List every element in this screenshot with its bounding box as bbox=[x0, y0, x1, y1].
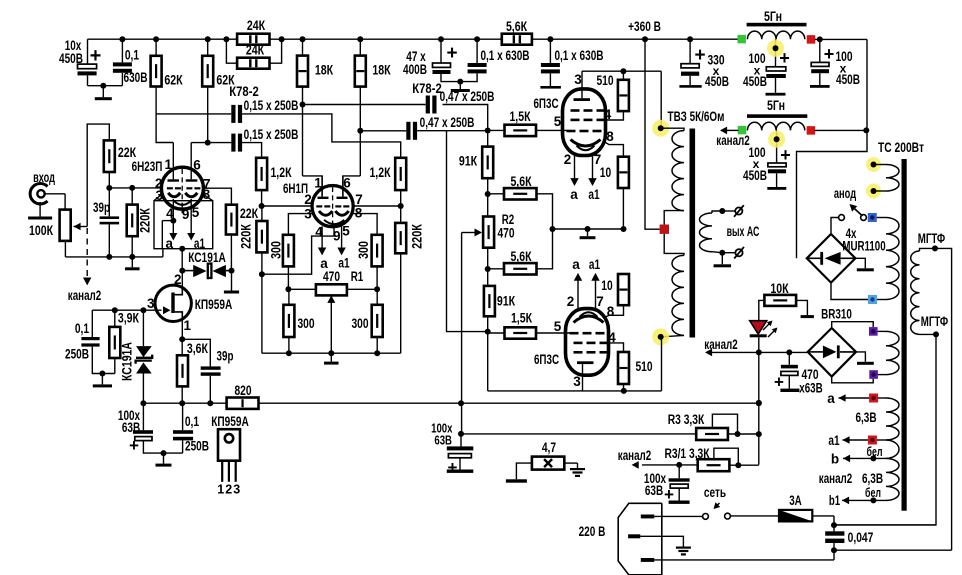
wire 6N1P cathode2 bbox=[352, 214, 377, 235]
svg-text:MUR1100: MUR1100 bbox=[842, 239, 885, 254]
terminal purple1 bbox=[869, 327, 878, 336]
svg-text:a1: a1 bbox=[338, 256, 350, 271]
svg-text:2: 2 bbox=[564, 152, 572, 167]
tube1 pin4 screen link bbox=[603, 111, 624, 120]
tube 6N23P cathode box bbox=[154, 201, 213, 249]
svg-text:1,5К: 1,5К bbox=[509, 109, 531, 124]
svg-text:+360 В: +360 В bbox=[628, 19, 661, 34]
wire MGTF top to fuse line bbox=[935, 248, 952, 550]
tube1 grid rows bbox=[571, 109, 580, 112]
svg-text:0,1: 0,1 bbox=[75, 321, 90, 336]
svg-text:5Гн: 5Гн bbox=[764, 9, 782, 24]
winding a1-b bbox=[886, 440, 899, 458]
resistor 22K grid1 bbox=[104, 140, 115, 172]
winding TVZ primary upper bbox=[661, 128, 684, 130]
svg-text:0,1: 0,1 bbox=[125, 48, 140, 63]
wire 6N1P grid2 bbox=[353, 205, 401, 207]
capacitor 47x400V electrolytic bbox=[440, 39, 442, 63]
resistor 1,5K upper bbox=[505, 125, 537, 136]
prong earth bbox=[628, 534, 640, 538]
resistor 1,2K right bbox=[395, 158, 406, 190]
wire feedback riser bbox=[447, 131, 488, 332]
svg-text:6: 6 bbox=[343, 176, 351, 191]
wire BR310 top to purple1 bbox=[832, 322, 874, 328]
wire fuse to cap bbox=[833, 516, 835, 531]
tube 6N23P grids bbox=[167, 187, 173, 189]
svg-text:BR310: BR310 bbox=[821, 307, 852, 322]
transformer TVZ core bbox=[690, 129, 696, 338]
wire anode1 to TVZ bbox=[660, 71, 662, 128]
svg-text:24К: 24К bbox=[246, 43, 265, 58]
node yellow choke1 tap bbox=[767, 40, 784, 57]
LED indicator bbox=[750, 321, 767, 334]
svg-text:+: + bbox=[694, 45, 705, 66]
resistor 5,6K upper bbox=[504, 188, 537, 199]
tube1 heater leads bbox=[574, 156, 576, 179]
svg-text:a1: a1 bbox=[588, 187, 600, 202]
tube1 cathode arc bbox=[571, 140, 601, 147]
svg-text:3: 3 bbox=[573, 374, 581, 389]
svg-text:0,15 х 250В: 0,15 х 250В bbox=[244, 98, 299, 113]
svg-text:5: 5 bbox=[192, 205, 200, 220]
wire heater dc bus channel2 bbox=[712, 351, 808, 353]
dashed channel2 from wiper bbox=[86, 228, 88, 278]
svg-text:5: 5 bbox=[554, 114, 562, 129]
tube 6P3S upper envelope bbox=[563, 89, 606, 156]
capacitor 0,15x250V upper bbox=[156, 113, 231, 115]
wiper R1 bbox=[327, 295, 335, 303]
resistor 62K first bbox=[155, 39, 157, 56]
svg-text:+: + bbox=[779, 48, 790, 68]
svg-text:450В: 450В bbox=[59, 51, 83, 66]
svg-text:+: + bbox=[90, 45, 102, 67]
tube2 heater leads bbox=[577, 281, 579, 309]
tube1 heater arc bbox=[577, 146, 595, 151]
svg-text:5,6К: 5,6К bbox=[510, 174, 532, 189]
svg-text:250В: 250В bbox=[65, 347, 89, 362]
svg-text:3А: 3А bbox=[789, 493, 802, 508]
resistor 18K second bbox=[359, 39, 361, 55]
terminal red choke1 bbox=[807, 35, 816, 44]
capacitor 39p input bbox=[108, 188, 110, 217]
resistor 300 lower right bbox=[372, 305, 383, 337]
capacitor 0,47x250V lower bbox=[360, 130, 406, 132]
svg-text:0,47 х 250В: 0,47 х 250В bbox=[420, 115, 475, 130]
svg-text:КС191А: КС191А bbox=[119, 342, 135, 381]
svg-text:1,2К: 1,2К bbox=[270, 165, 292, 180]
svg-text:2: 2 bbox=[567, 294, 575, 309]
svg-text:a1: a1 bbox=[828, 433, 840, 448]
svg-text:2: 2 bbox=[174, 272, 182, 287]
wire anode1 node bbox=[582, 70, 661, 72]
svg-text:300: 300 bbox=[268, 241, 284, 259]
tube 6N1P heater bbox=[324, 220, 344, 224]
capacitor 0,1 630V input filter bbox=[121, 39, 123, 62]
svg-text:510: 510 bbox=[635, 359, 652, 374]
svg-text:250В: 250В bbox=[185, 439, 209, 454]
svg-text:1: 1 bbox=[217, 483, 224, 497]
wire choke2 output bbox=[815, 129, 868, 131]
svg-text:400В: 400В bbox=[403, 62, 427, 77]
svg-text:вых АС: вых АС bbox=[727, 224, 760, 239]
svg-text:62К: 62К bbox=[164, 73, 183, 88]
tube 6N1P grids bbox=[316, 205, 322, 207]
wire R3/1 output bbox=[729, 464, 758, 466]
wire input bottom bus bbox=[65, 256, 162, 258]
wire 0,15-1 to 1,2K-2 bbox=[242, 114, 401, 158]
resistor 91K lower bbox=[484, 286, 495, 316]
wire wiper to grid bbox=[87, 124, 109, 226]
wire BR310 right to ground bbox=[856, 352, 865, 362]
resistor 22K grid2 bbox=[203, 188, 231, 205]
svg-text:5: 5 bbox=[554, 319, 562, 334]
svg-text:6,3В: 6,3В bbox=[862, 471, 883, 486]
svg-text:+: + bbox=[664, 485, 674, 504]
svg-text:КП959А: КП959А bbox=[211, 414, 249, 429]
svg-text:3: 3 bbox=[574, 72, 582, 87]
tube2 heater arc bbox=[580, 312, 598, 317]
svg-text:18К: 18К bbox=[372, 63, 391, 78]
winding III 6,3V heater1 bbox=[878, 330, 886, 332]
wire MGTF bottom down bbox=[834, 334, 936, 525]
svg-text:220 В: 220 В bbox=[579, 524, 606, 539]
wire 0,47-2 to grid node bbox=[417, 130, 488, 132]
svg-text:5,6К: 5,6К bbox=[506, 19, 528, 34]
svg-text:a: a bbox=[827, 391, 835, 406]
svg-text:470: 470 bbox=[323, 269, 340, 284]
svg-text:18К: 18К bbox=[315, 63, 334, 78]
wire cathode bottom bus bbox=[262, 352, 401, 354]
svg-text:300: 300 bbox=[351, 316, 368, 331]
svg-text:24К: 24К bbox=[247, 18, 266, 33]
svg-text:+: + bbox=[824, 44, 835, 64]
svg-text:1,2К: 1,2К bbox=[369, 165, 391, 180]
svg-text:10: 10 bbox=[600, 165, 611, 180]
svg-text:1: 1 bbox=[314, 176, 322, 191]
prong L bbox=[641, 515, 655, 519]
svg-text:4,7: 4,7 bbox=[542, 440, 556, 455]
potentiometer R2 470 bbox=[483, 217, 494, 248]
resistor 220K left grid bbox=[261, 206, 263, 221]
capacitor 100x450V second bbox=[819, 39, 821, 62]
wire bridge right to ground bbox=[855, 258, 865, 268]
resistor 5,6K lower bbox=[504, 263, 537, 274]
wire anode2 node bbox=[488, 390, 662, 392]
wire bridge top to switch bbox=[831, 218, 839, 235]
svg-text:канал2: канал2 bbox=[819, 471, 852, 486]
svg-text:5: 5 bbox=[342, 224, 350, 239]
wiper R3 bbox=[712, 414, 737, 434]
wire R3/1 left channel2 bbox=[642, 464, 698, 466]
wire grid1 row bbox=[109, 187, 161, 189]
capacitor 100x450V choke2 filter bbox=[776, 130, 778, 163]
svg-text:100К: 100К bbox=[29, 223, 54, 238]
svg-text:91К: 91К bbox=[459, 154, 478, 169]
svg-text:6П3С: 6П3С bbox=[534, 352, 559, 367]
svg-text:4: 4 bbox=[608, 330, 616, 345]
wire gate bias row bbox=[92, 309, 143, 311]
resistor 1,5K lower bbox=[505, 327, 537, 338]
capacitor 470x63V bbox=[788, 352, 790, 364]
wire BR310 bottom to purple2 bbox=[832, 377, 874, 383]
svg-text:470: 470 bbox=[497, 226, 514, 241]
transistor KP959A upper bbox=[155, 285, 191, 321]
wire channel2 out arrow bbox=[711, 351, 713, 353]
resistor 3,9K bbox=[114, 310, 116, 327]
capacitor 330x450V electrolytic bbox=[689, 39, 691, 64]
tube2 pin4 screen link bbox=[607, 343, 624, 352]
node yellow TVZ bottom bbox=[652, 328, 669, 345]
svg-text:сеть: сеть bbox=[704, 485, 726, 500]
transformer TS core bbox=[902, 159, 907, 511]
svg-text:1: 1 bbox=[165, 157, 173, 172]
svg-text:0,1: 0,1 bbox=[185, 414, 200, 429]
svg-text:a: a bbox=[572, 257, 580, 272]
wire 6N1P pin9 bbox=[262, 227, 334, 275]
svg-text:+: + bbox=[129, 436, 139, 455]
svg-text:2: 2 bbox=[304, 192, 312, 207]
svg-text:КП959А: КП959А bbox=[195, 297, 233, 312]
svg-text:220К: 220К bbox=[238, 224, 254, 249]
tube 6N23P heater bbox=[174, 201, 190, 205]
svg-text:8: 8 bbox=[607, 304, 615, 319]
capacitor 39p source bbox=[182, 339, 210, 366]
svg-text:К78-2: К78-2 bbox=[412, 81, 442, 96]
svg-text:450В: 450В bbox=[836, 72, 860, 87]
wire bottom dc bus bbox=[143, 402, 226, 404]
resistor 220K input bbox=[131, 188, 133, 205]
svg-text:6П3С: 6П3С bbox=[533, 96, 558, 111]
capacitor 0,47x250V upper bbox=[426, 96, 430, 114]
svg-text:3,9К: 3,9К bbox=[118, 311, 140, 326]
wire R3 output bbox=[728, 433, 759, 435]
tube2 pin5 grid wire bbox=[536, 332, 570, 334]
svg-text:a1: a1 bbox=[589, 257, 601, 272]
terminal red choke2 bbox=[807, 126, 816, 134]
tube 6N1P envelope bbox=[312, 186, 353, 227]
terminal blue switch bbox=[868, 213, 877, 222]
tube 6N1P heater leads bbox=[321, 226, 323, 249]
resistor 300 upper right bbox=[372, 235, 383, 267]
resistor 300 lower left bbox=[283, 305, 294, 337]
resistor 220K right grid bbox=[400, 206, 402, 223]
potentiometer 100K volume bbox=[64, 194, 66, 210]
capacitor 100x63V heater2 bbox=[460, 434, 462, 447]
svg-text:0,15 х 250В: 0,15 х 250В bbox=[244, 127, 299, 142]
capacitor 0,1 250V gate bbox=[91, 310, 93, 337]
tube2 cathode arc bbox=[574, 316, 604, 323]
svg-text:3,6К: 3,6К bbox=[187, 341, 209, 356]
svg-text:10: 10 bbox=[601, 278, 612, 293]
svg-text:канал2: канал2 bbox=[68, 288, 101, 303]
ground zener right bbox=[231, 271, 233, 291]
tube1 pin5 grid wire bbox=[536, 129, 567, 131]
wire R3 left bbox=[461, 433, 696, 435]
winding TVZ secondary bbox=[712, 211, 722, 213]
wire 6N1P grid1 bbox=[262, 205, 312, 207]
svg-text:a1: a1 bbox=[194, 236, 206, 251]
resistor 3,6K bbox=[179, 336, 185, 342]
wire choke2 input channel2 bbox=[727, 129, 739, 131]
svg-text:300: 300 bbox=[355, 241, 371, 259]
resistor 62K second bbox=[207, 39, 209, 56]
winding 6,3V a-a1 bbox=[886, 398, 899, 440]
svg-text:9: 9 bbox=[182, 207, 190, 222]
svg-text:39p: 39p bbox=[93, 200, 110, 215]
svg-text:ТВЗ 5К/6Ом: ТВЗ 5К/6Ом bbox=[668, 109, 725, 124]
tube 6N1P divider bbox=[332, 187, 334, 225]
svg-text:канал2: канал2 bbox=[704, 337, 737, 352]
svg-text:0,47 х 250В: 0,47 х 250В bbox=[440, 89, 495, 104]
svg-text:510: 510 bbox=[596, 73, 613, 88]
capacitor 0,047 mains bbox=[825, 531, 844, 535]
svg-text:220К: 220К bbox=[137, 208, 153, 233]
svg-text:39p: 39p bbox=[217, 349, 234, 364]
svg-text:0,047: 0,047 bbox=[848, 530, 874, 545]
capacitor 100x450V choke1 filter bbox=[775, 39, 777, 66]
wiper R3/1 bbox=[714, 448, 738, 465]
tube1 anode bbox=[574, 98, 591, 101]
svg-text:+: + bbox=[446, 43, 457, 64]
output jack hot bbox=[722, 210, 735, 212]
svg-text:0,1 х 630В: 0,1 х 630В bbox=[554, 48, 603, 63]
terminal green choke2 bbox=[738, 126, 747, 135]
tube2 grid rows bbox=[570, 332, 579, 335]
tube 6N23P cathode leads bbox=[172, 199, 174, 221]
capacitor 100x63V heater3 bbox=[678, 465, 680, 478]
terminal blue2 bbox=[868, 295, 877, 304]
capacitor 10x450V electrolytic bbox=[87, 39, 89, 64]
svg-text:a: a bbox=[570, 187, 578, 202]
tube2 anode bbox=[577, 361, 594, 364]
svg-text:МГТФ: МГТФ bbox=[921, 314, 949, 329]
svg-text:ТС 200Вт: ТС 200Вт bbox=[878, 140, 924, 155]
svg-text:63В: 63В bbox=[122, 420, 140, 435]
terminal red TVZ center tap bbox=[660, 225, 669, 234]
resistor 24K inline bbox=[237, 34, 269, 45]
wire +360 to center tap bbox=[645, 39, 660, 229]
capacitor 100x63V left bbox=[142, 403, 144, 430]
capacitor 0,1 250V right bbox=[182, 403, 184, 430]
wiper R2 bbox=[462, 232, 475, 234]
tube 6N23P cathodes bbox=[168, 193, 180, 197]
wire grid chain top bbox=[443, 105, 488, 131]
wiper 100K bbox=[74, 223, 81, 231]
tube1 pin8 cathode link bbox=[603, 141, 623, 157]
wire +360V top rail bbox=[88, 38, 238, 40]
tube 6N23P divider bbox=[181, 169, 183, 208]
resistor 10 lower cathode bbox=[618, 274, 629, 305]
wire 0,15-2 to 1,2K-1 bbox=[242, 143, 262, 158]
resistor 820 bbox=[227, 398, 259, 409]
wire 6N1P cathode1 bbox=[288, 214, 313, 235]
ground cathode bus bbox=[587, 229, 589, 236]
svg-text:анод: анод bbox=[834, 186, 856, 201]
svg-text:К78-2: К78-2 bbox=[229, 84, 259, 99]
tube2 pin8 cathode link bbox=[603, 305, 624, 318]
plug 220V bbox=[618, 503, 662, 575]
wire box to bottom bus bbox=[162, 249, 164, 257]
wire bridge bottom to winding bbox=[831, 283, 868, 300]
svg-text:+: + bbox=[774, 373, 784, 392]
svg-text:450В: 450В bbox=[743, 74, 767, 89]
output jack gnd bbox=[722, 252, 735, 254]
svg-text:0,1 х 630В: 0,1 х 630В bbox=[480, 48, 529, 63]
svg-text:6Н23П: 6Н23П bbox=[132, 159, 163, 174]
svg-text:х63В: х63В bbox=[799, 381, 823, 396]
resistor 510 upper bbox=[620, 68, 626, 74]
capacitor 0,1x630V B bbox=[549, 39, 551, 63]
resistor 18K first bbox=[302, 39, 304, 55]
prong N bbox=[641, 558, 655, 562]
svg-text:1: 1 bbox=[184, 318, 192, 333]
capacitor 0,1x630V A bbox=[476, 39, 478, 63]
svg-text:5Гн: 5Гн bbox=[767, 98, 785, 113]
node yellow choke2 tap bbox=[768, 131, 785, 148]
svg-text:b1: b1 bbox=[829, 493, 841, 508]
svg-text:+: + bbox=[448, 458, 458, 477]
terminal green choke1 bbox=[737, 35, 746, 44]
svg-text:6: 6 bbox=[193, 157, 201, 172]
tube 6N1P anodes bbox=[318, 197, 329, 199]
svg-text:63В: 63В bbox=[434, 433, 452, 448]
svg-text:450В: 450В bbox=[743, 168, 767, 183]
svg-text:91К: 91К bbox=[497, 294, 516, 309]
svg-text:630В: 630В bbox=[124, 70, 148, 85]
tube 6N23P envelope bbox=[161, 167, 203, 209]
svg-text:3: 3 bbox=[147, 296, 155, 311]
wire rail to rectifier bbox=[797, 39, 868, 258]
resistor 5,6K anode inline bbox=[502, 34, 532, 45]
svg-text:+: + bbox=[780, 145, 791, 165]
svg-text:3: 3 bbox=[233, 483, 240, 497]
winding anode tap TS bbox=[866, 157, 881, 172]
svg-text:1,5К: 1,5К bbox=[511, 311, 533, 326]
tube 6N23P anodes bbox=[168, 179, 180, 181]
node rail junctions bbox=[119, 36, 125, 42]
wire TVZ bottom to anode2 bbox=[661, 337, 663, 391]
svg-text:820: 820 bbox=[234, 383, 251, 398]
svg-text:6,3В: 6,3В bbox=[855, 410, 876, 425]
svg-text:22К: 22К bbox=[240, 206, 259, 221]
svg-text:5,6К: 5,6К bbox=[510, 249, 532, 264]
ground R1 bus bbox=[330, 353, 332, 361]
svg-text:220К: 220К bbox=[409, 224, 425, 249]
svg-text:300: 300 bbox=[297, 316, 314, 331]
svg-text:R1: R1 bbox=[351, 269, 364, 284]
svg-text:a: a bbox=[166, 236, 174, 251]
winding TVZ primary lower bbox=[664, 234, 684, 256]
wire 18K-1 to 6N1P anode bbox=[302, 87, 304, 176]
svg-text:МГТФ: МГТФ bbox=[918, 231, 946, 246]
ground input bus bbox=[131, 257, 133, 267]
resistor 24K parallel bbox=[226, 39, 237, 63]
resistor 91K upper bbox=[487, 131, 489, 147]
tube 6N1P cathodes bbox=[319, 211, 332, 215]
svg-text:b: b bbox=[831, 452, 839, 467]
rectifier bridge 4x MUR1100 bbox=[807, 234, 856, 283]
node yellow TVZ top bbox=[652, 120, 669, 137]
resistor 1,2K left bbox=[256, 158, 267, 190]
wire 18K-2 to 6N1P anode bbox=[359, 87, 361, 176]
svg-text:7: 7 bbox=[596, 294, 604, 309]
resistor 300 upper left bbox=[283, 235, 294, 267]
wire LED node vertical bbox=[758, 352, 760, 464]
svg-text:8: 8 bbox=[606, 129, 614, 144]
wire cathode ground bus bbox=[553, 228, 624, 230]
capacitor 0,15x250V lower bbox=[191, 142, 231, 144]
svg-text:450В: 450В bbox=[705, 74, 729, 89]
